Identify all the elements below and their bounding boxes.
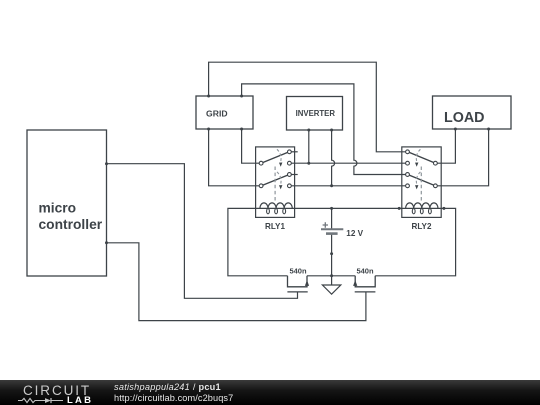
transistor M1 (NMOS, 540n) bbox=[287, 266, 309, 292]
wire: RLY1 throw4 to RLY2 throw4 bbox=[291, 185, 405, 187]
wire: GRID bottom-left pin to RLY1 common 2 bbox=[209, 129, 260, 186]
relay RLY1 contacts bbox=[259, 150, 291, 188]
relay RLY1 coil bbox=[260, 203, 292, 214]
logo squiggle: resistor + diode bbox=[17, 394, 67, 405]
wire: RLY1 NC stub 1 bbox=[291, 151, 297, 153]
svg-text:540n: 540n bbox=[356, 266, 374, 275]
svg-text:INVERTER: INVERTER bbox=[296, 109, 336, 118]
wire: GRID bottom-right pin to RLY1 common 1 bbox=[242, 129, 260, 163]
block INVERTER bbox=[287, 97, 343, 131]
wire: RLY1 NC stub 3 bbox=[291, 174, 297, 176]
wire: battery top lead bbox=[331, 208, 333, 229]
ground symbol bbox=[322, 285, 340, 294]
svg-text:controller: controller bbox=[39, 217, 103, 232]
svg-text:540n: 540n bbox=[289, 266, 307, 275]
relay RLY2 coil bbox=[406, 203, 438, 214]
svg-text:micro: micro bbox=[39, 201, 77, 216]
svg-text:RLY1: RLY1 bbox=[265, 222, 285, 231]
wire: INVERTER pin1 drop to node bbox=[308, 130, 310, 163]
svg-text:RLY2: RLY2 bbox=[412, 222, 432, 231]
transistor M2 (NMOS, 540n) bbox=[353, 266, 375, 292]
CircuitLab logo bbox=[23, 383, 91, 398]
wire: GRID top-right pin to 2nd bus, down to RLY2 throw 3 (hops y163) bbox=[242, 84, 406, 175]
relay RLY1 body bbox=[256, 147, 295, 218]
battery V1 12V bbox=[321, 222, 364, 238]
footer bar bbox=[0, 380, 540, 405]
svg-text:GRID: GRID bbox=[206, 108, 227, 118]
relay RLY2 contacts bbox=[406, 150, 438, 188]
svg-text:12 V: 12 V bbox=[346, 229, 363, 238]
relay RLY2 actuator dashes bbox=[415, 149, 421, 202]
block GRID bbox=[196, 96, 253, 129]
wire: LOAD pin1 to RLY2 common 1 bbox=[437, 129, 455, 163]
wire: micro pin1 to M1 gate bbox=[107, 164, 298, 299]
wire: M1 source to M2 source through ground node bbox=[307, 275, 355, 277]
wire: coil bus RLY1 to battery to RLY2 to right drop bbox=[256, 208, 456, 275]
wire: GRID top-left pin to top bus, down to RLY2 throw 1 bbox=[209, 62, 406, 152]
relay RLY1 actuator dashes bbox=[275, 149, 282, 202]
wire: RLY1 throw2 to RLY2 throw2 bbox=[291, 162, 405, 164]
wire: battery bottom lead to ground bbox=[331, 234, 333, 285]
wire: LOAD pin2 to RLY2 common 2 bbox=[437, 129, 488, 186]
wire: RLY1 coil left lead down to M1 drain bbox=[228, 208, 288, 275]
block LOAD bbox=[433, 96, 512, 129]
svg-text:LOAD: LOAD bbox=[444, 110, 485, 126]
wire: micro pin2 to M2 gate bbox=[107, 243, 366, 321]
relay RLY2 body bbox=[402, 147, 441, 218]
block MICRO CONTROLLER bbox=[27, 130, 107, 276]
wire: INVERTER pin2 drop to node (hops y163) bbox=[332, 130, 335, 186]
